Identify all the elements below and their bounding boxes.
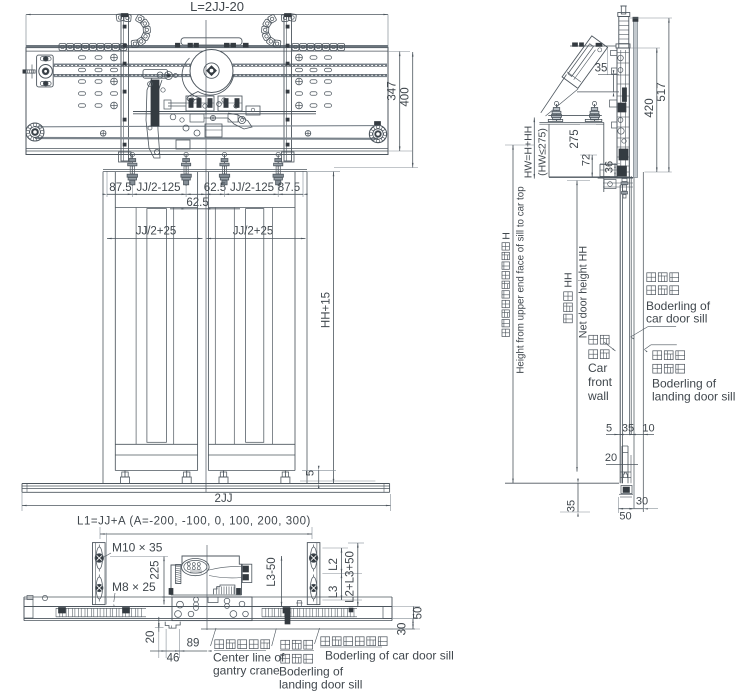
svg-text:HH+15: HH+15 [321,292,333,328]
lower return belt [35,126,378,127]
dimension 46 and 89 [158,632,160,658]
svg-text:JJ/2+25: JJ/2+25 [233,226,274,238]
svg-text:35: 35 [622,423,634,435]
hanger track rail [133,111,316,113]
header right edge extension [387,15,389,49]
center line [205,20,207,492]
svg-text:gantry crane: gantry crane [213,664,280,678]
side operator vertical body [617,48,629,177]
svg-text:landing door sill: landing door sill [652,390,735,404]
dimension JJ/2+25 right [207,238,306,240]
operator left protrusions [611,51,618,56]
base plate holes [177,601,184,608]
svg-text:Net door height HH: Net door height HH [578,246,590,338]
dimension L=2JJ-20 top [26,14,388,16]
hanger support bracket [548,115,602,117]
svg-text:35: 35 [595,63,608,75]
svg-text:517: 517 [656,82,668,101]
door cam vane mechanism [143,70,168,79]
right perforation slots [296,54,303,61]
machine speaker oval [182,559,210,576]
left return pulley [26,123,44,141]
machine capacitor hatch [176,565,181,584]
car top line [505,482,619,484]
svg-text:Height from upper end face of: Height from upper end face of sill to ca… [516,186,527,374]
right bracket bolts [310,547,316,569]
dimension 50 rail height [392,606,420,608]
lock latch hook [228,113,252,129]
left belt tensioner bracket [37,55,54,87]
svg-text:5: 5 [606,423,612,435]
side spring hanger bolts [556,104,558,121]
svg-text:20: 20 [145,631,157,644]
dimension 72 [580,154,597,156]
machine wavy cables [209,566,242,570]
svg-text:Boderling of: Boderling of [279,665,344,679]
top clamp plates [570,45,616,47]
svg-text:30: 30 [397,623,409,636]
tilted controller box [562,36,608,88]
operator inner plate line [628,48,630,176]
machine terminal bracket [242,564,252,582]
svg-text:30: 30 [636,496,648,508]
svg-text:20: 20 [605,452,617,464]
svg-text:62.5: 62.5 [204,182,226,194]
sill front edge line [201,628,415,630]
dimension 400 [334,167,418,169]
svg-text:JJ/2-125: JJ/2-125 [230,182,274,194]
landing sill edge line [633,178,635,508]
dimension 30 sill [633,486,635,509]
dimension 517 [668,18,670,172]
dimension 225 [110,556,168,558]
dimension HH [576,181,578,472]
svg-text:87.5: 87.5 [278,182,300,194]
door hanger below operator [604,180,616,189]
label car door sill right [647,273,656,282]
right hanger plate rail [284,15,292,161]
leader landing door sill plan [272,629,277,647]
svg-text:72: 72 [581,154,593,166]
svg-text:JJ/2+25: JJ/2+25 [136,226,177,238]
center line over motor [205,48,207,115]
leader car door sill plan [315,628,320,644]
right panel bottom rail [208,443,295,445]
svg-text:225: 225 [150,560,162,579]
car sill cross-section [621,471,631,473]
right panel outer thin edge [306,172,308,484]
guide shoe plan detail [165,622,180,629]
cylinder flange [616,44,630,48]
side operator top bolt [621,6,626,14]
label landing door sill right [651,344,677,346]
svg-text:Car: Car [588,361,607,375]
svg-text:35: 35 [566,500,578,512]
svg-text:87.5: 87.5 [109,182,131,194]
spring hanger bolts [131,155,133,186]
encoder cylinder [618,13,630,17]
svg-text:Center line of: Center line of [213,651,285,665]
cable chain right loop [273,40,281,48]
clearance shelf [539,122,603,124]
svg-text:46: 46 [167,653,180,665]
right return pulley [369,125,386,142]
svg-text:M10 × 35: M10 × 35 [112,541,163,555]
dimension L2 [322,547,348,549]
svg-text:Boderling of: Boderling of [652,377,717,391]
svg-text:420: 420 [644,98,656,117]
drive motor housing [190,50,233,93]
dimension 30 rail offset [393,628,420,630]
left door panel [114,172,116,471]
dimension 50 sill width [618,497,620,513]
dimension 20 plan [155,627,164,629]
dimension 420 [644,171,671,173]
label car front wall [589,335,598,344]
dimension H height line [505,144,535,146]
svg-text:5: 5 [305,470,317,476]
machine base plate [172,597,252,621]
cable chain right run [292,44,299,51]
dimension 347 [388,51,410,53]
left panel bottom rail [115,443,197,445]
dimension 5 35 10 sill [606,434,654,436]
svg-text:H: H [501,232,513,240]
svg-text:36: 36 [604,161,616,173]
svg-text:landing door sill: landing door sill [279,678,362,692]
plan center line [206,545,208,630]
machine heatsink comb [214,585,235,594]
landing door line [642,172,644,512]
operator bottom bracket [600,165,617,177]
svg-text:89: 89 [187,638,200,650]
svg-text:L2+L3+50: L2+L3+50 [345,551,357,603]
sill end details [24,599,33,618]
dimension L3-50 [281,556,283,607]
svg-text:275: 275 [569,129,581,148]
dimension L3 [322,599,362,601]
panel hanger rail bottom line [103,169,307,171]
dimension JJ/2+25 left [107,238,203,240]
svg-text:wall: wall [587,389,609,403]
hanger bolt below operator [622,179,627,182]
cable chain left loop [131,40,139,48]
sill niche box [622,445,628,447]
header left edge extension [25,15,27,49]
dimension 36 [600,163,620,165]
left panel outer thin edge [102,172,104,484]
operator body details [622,88,626,102]
right fixing bracket [307,543,320,605]
car sill edge line pair [629,176,631,434]
svg-text:M8 × 25: M8 × 25 [112,580,156,594]
left fixing bracket [93,543,106,605]
svg-text:L3: L3 [328,586,340,599]
dimension 20 sill [606,464,638,466]
tensioner adjust bolt [23,70,26,73]
svg-text:L3-50: L3-50 [266,557,278,586]
dimension L2+L3+50 [348,542,364,544]
cable chain left run [59,44,66,51]
dimension 35 below car top [577,483,579,512]
belt clamp above right pulley [375,122,381,126]
header assembly outer frame [26,48,388,155]
machine corner feet [169,588,173,594]
svg-text:400: 400 [400,87,412,106]
svg-text:347: 347 [387,81,399,100]
left perforation slots [79,56,86,60]
plan sill rail [24,606,392,608]
cam linkage rods [168,102,186,104]
plan sill back line [24,596,392,598]
leader center line of gantry crane [211,628,217,646]
bracket bolt M10 [96,547,102,569]
dimension 62.5 row2 [170,208,240,210]
clearance box [548,124,550,177]
svg-text:HW=H+HH: HW=H+HH [523,126,535,179]
door guide shoes [124,471,126,478]
svg-text:2JJ: 2JJ [215,493,233,505]
svg-text:front: front [588,375,613,389]
right door panel [207,172,209,471]
top mounting bracket plate [181,38,242,45]
dimension HH+15 [307,171,340,173]
door coupler blocks [186,96,214,111]
coupler detail screws [189,99,193,108]
svg-text:50: 50 [619,511,631,523]
left hanger plate rail [121,15,129,161]
car sill front view [22,483,390,485]
svg-text:L1=JJ+A (A=-200, -100, 0, 100,: L1=JJ+A (A=-200, -100, 0, 100, 200, 300) [77,516,311,528]
svg-text:50: 50 [413,607,425,620]
switch bracket [246,106,260,115]
svg-text:JJ/2-125: JJ/2-125 [136,182,180,194]
hanger bolt extension line [106,171,108,197]
svg-text:(HW≤275): (HW≤275) [537,128,549,176]
svg-text:HH: HH [563,272,575,287]
upper drive belt [53,63,387,65]
support strut [541,75,567,113]
landing sill bracket below [621,486,632,494]
svg-text:L2: L2 [328,558,340,571]
rail clamps [59,608,66,614]
svg-text:Boderling of car door sill: Boderling of car door sill [325,649,454,663]
gantry machine body outline [171,556,242,595]
guide rail gray band [633,18,637,178]
svg-text:car door sill: car door sill [646,312,707,326]
dimension 2JJ [21,492,23,511]
sill comb segments [56,607,146,609]
car door panel side [619,185,621,483]
belt fastener screw right [305,131,311,137]
belt fastener screw [210,115,215,120]
dimension HW [533,118,535,179]
dimension row 87.5 / JJ2-125 [107,193,303,195]
svg-text:L=2JJ-20: L=2JJ-20 [190,0,244,14]
svg-text:10: 10 [642,423,654,435]
rail top bolt [297,601,301,607]
belt fastener screw left [100,131,106,137]
lock roller parts [183,125,189,131]
